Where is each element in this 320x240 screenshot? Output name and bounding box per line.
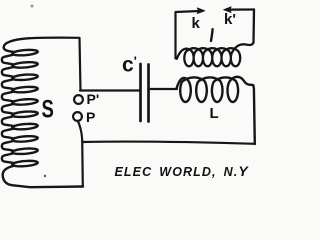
- svg-text:k': k': [224, 11, 236, 28]
- svg-text:P': P': [87, 91, 100, 107]
- svg-text:P: P: [86, 109, 95, 125]
- svg-text:ELEC WORLD, N.Y: ELEC WORLD, N.Y: [115, 163, 250, 179]
- svg-text:S: S: [42, 95, 54, 123]
- svg-text:L: L: [210, 105, 219, 122]
- svg-text:k: k: [192, 15, 201, 32]
- svg-text:c': c': [122, 54, 137, 77]
